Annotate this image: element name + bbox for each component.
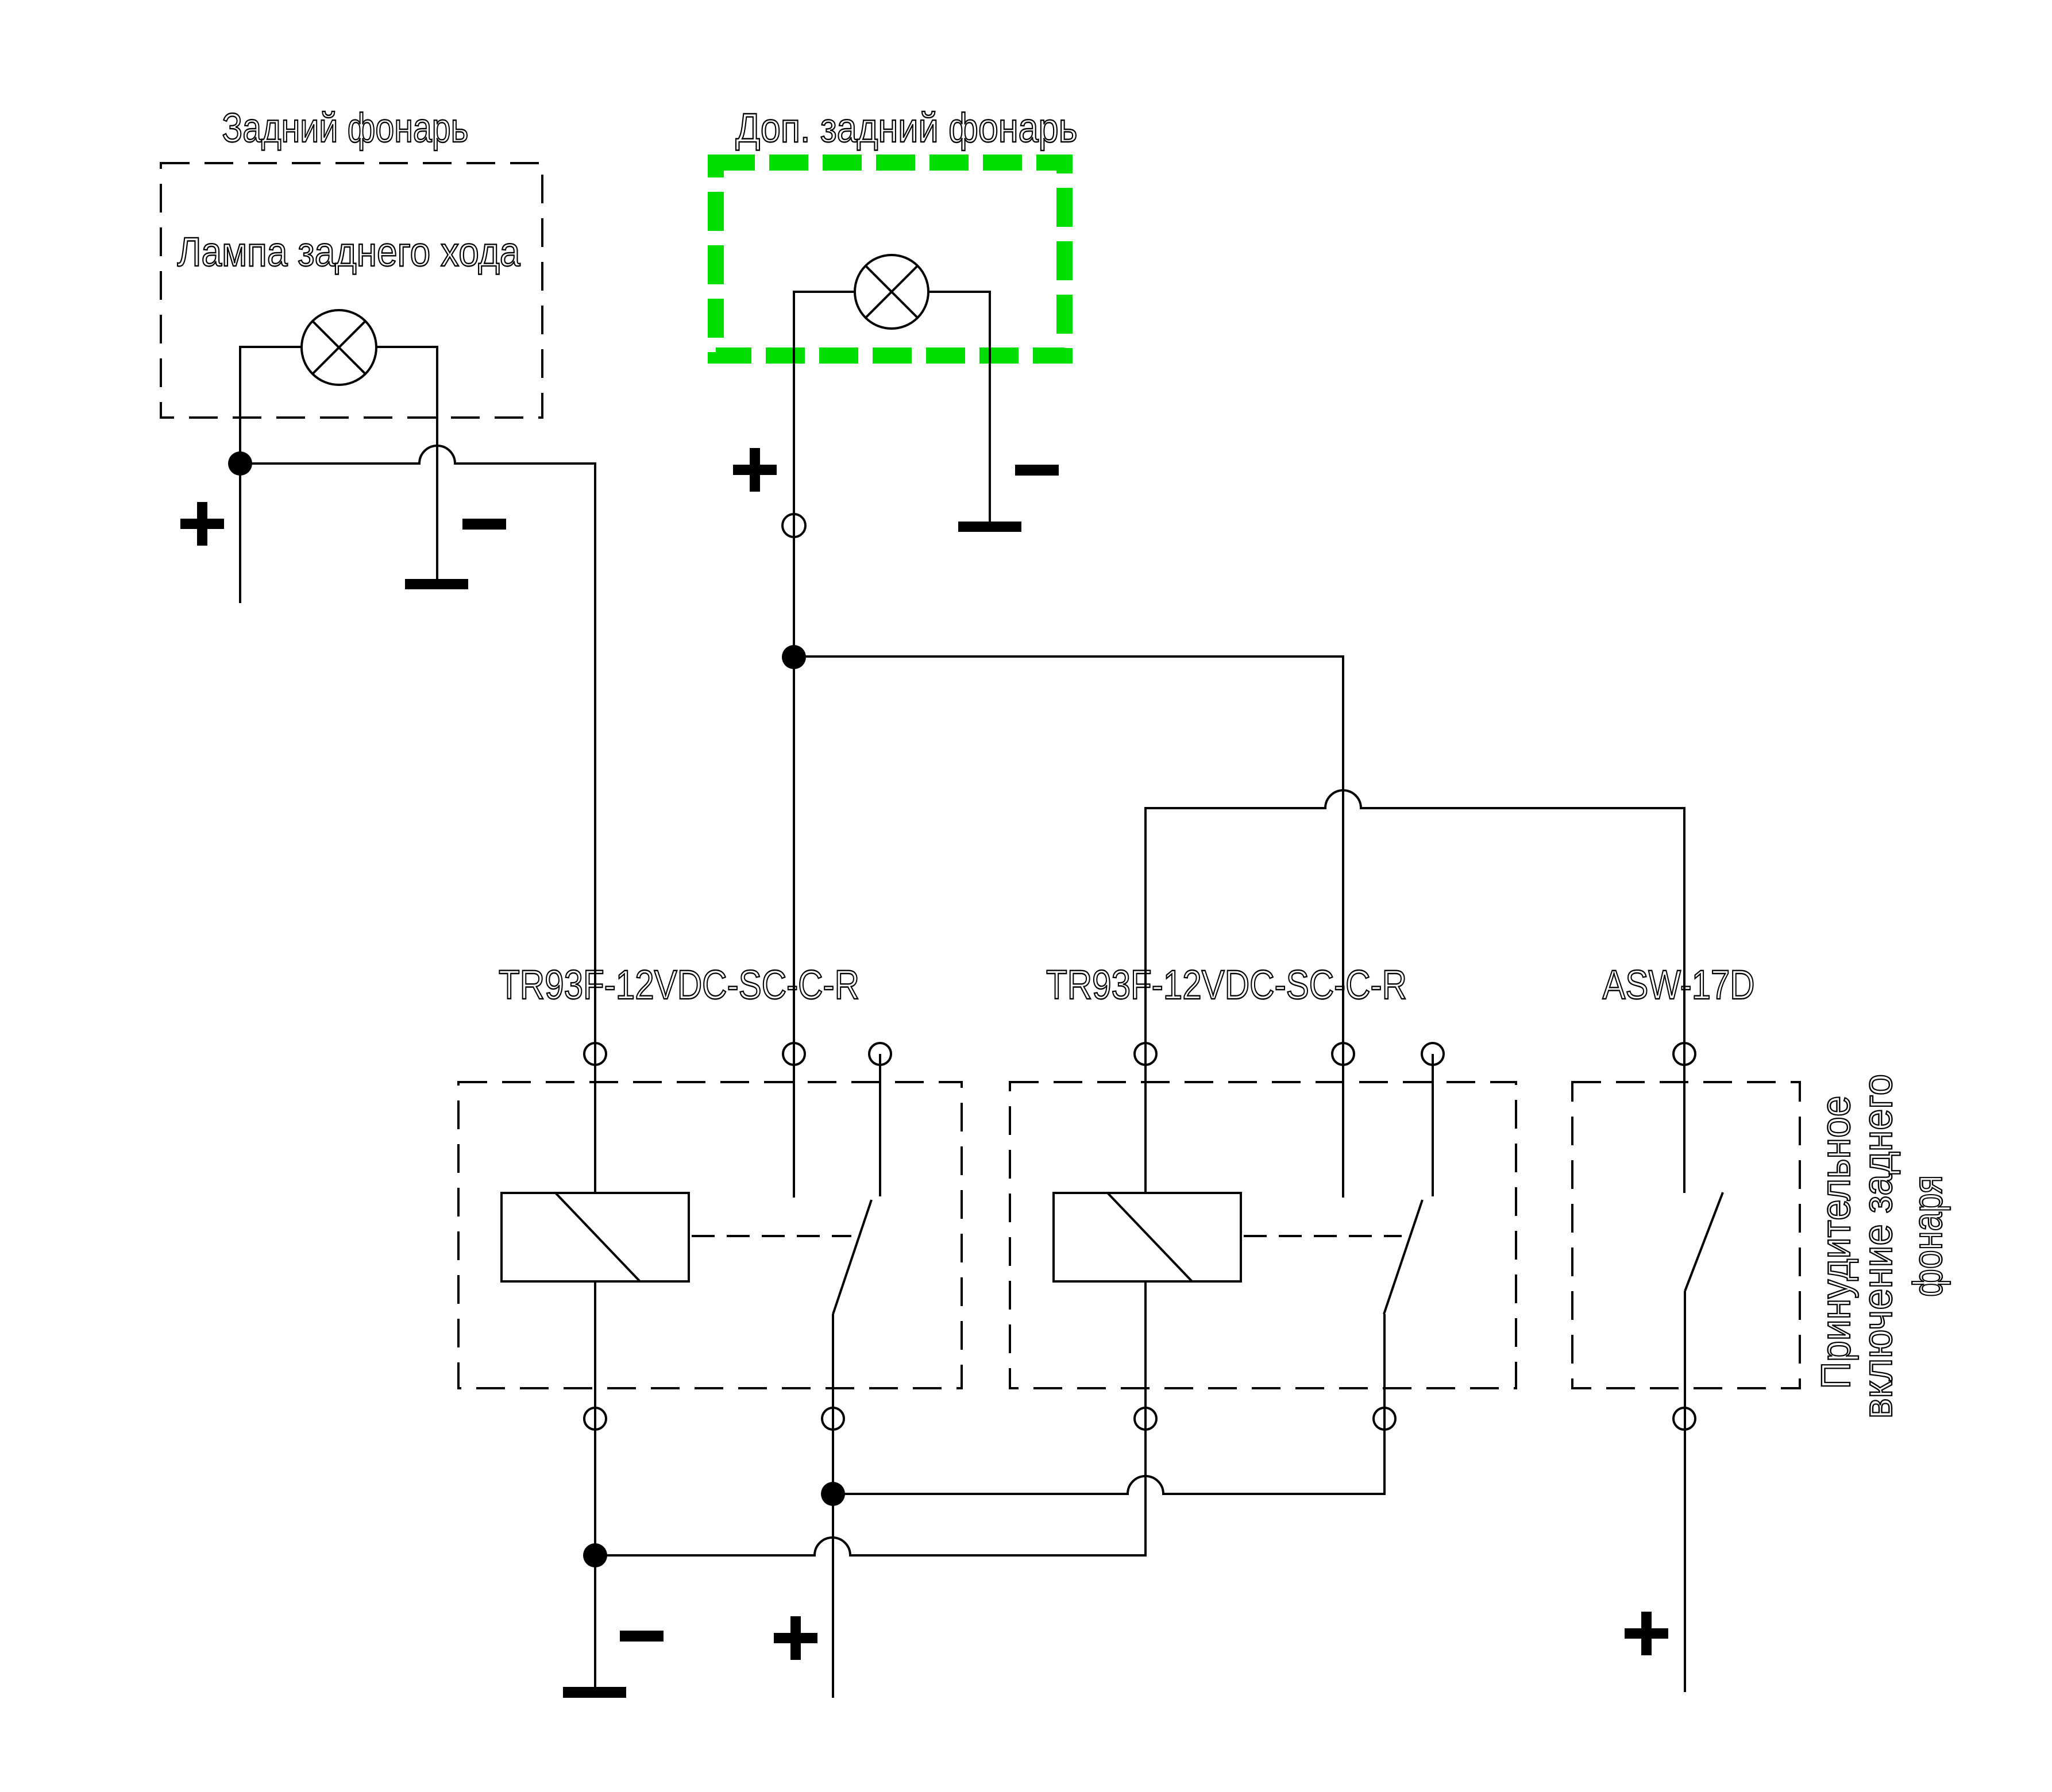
node A junction dot: [228, 451, 252, 476]
ground symbol bottom: [563, 1687, 626, 1698]
relay K2 pin 4 terminal circle: [1135, 1408, 1156, 1430]
wire: relay K1 fixed contact lead: [879, 1054, 881, 1196]
switch SA1 top terminal circle: [1673, 1043, 1695, 1065]
wire: lamp EL1 left lead down to +12V stub: [240, 347, 302, 603]
svg-text:Доп. задний фонарь: Доп. задний фонарь: [736, 106, 1078, 151]
ground symbol for EL2: [958, 522, 1021, 532]
relay K2 pin 5 terminal circle: [1374, 1408, 1395, 1430]
relay K2 pin 3 terminal circle: [1422, 1043, 1444, 1065]
switch SA1 blade: [1685, 1192, 1723, 1291]
wire: relay K1 coil bottom to ground: [594, 1281, 596, 1687]
plus supply mark for EL2: [733, 448, 777, 492]
minus mark for EL1: [462, 519, 506, 530]
wire: switch SA1 common down to +12V stub: [1684, 1291, 1686, 1692]
label: Принудительное включение заднего фонаря (rotated): [1814, 1074, 1951, 1419]
wire: K1 common to K2 common (hop over K2 coil wire): [833, 1314, 1384, 1494]
svg-text:TR93F-12VDC-SC-C-R: TR93F-12VDC-SC-C-R: [1046, 963, 1407, 1008]
relay K2 dashed enclosure: [1010, 1082, 1516, 1388]
relay K1 pin 5 terminal circle: [822, 1408, 844, 1430]
mechanical link K1 (dashed): [692, 1235, 851, 1237]
lamp EL2 (aux reverse lamp): [855, 255, 928, 329]
svg-text:Задний фонарь: Задний фонарь: [222, 106, 469, 151]
minus mark bottom: [620, 1631, 664, 1642]
relay K1 pin 3 terminal circle: [869, 1043, 891, 1065]
relay K1 pin 1 terminal circle: [584, 1043, 606, 1065]
svg-text:Лампа заднего хода: Лампа заднего хода: [178, 230, 520, 275]
relay K1 pin 4 terminal circle: [584, 1408, 606, 1430]
svg-text:TR93F-12VDC-SC-C-R: TR93F-12VDC-SC-C-R: [499, 963, 859, 1008]
relay K2 pin 1 terminal circle: [1135, 1043, 1156, 1065]
wire: node A to relay K1 coil (hop over ground wire): [240, 446, 595, 1193]
ground symbol for EL1: [405, 579, 468, 589]
relay K1 pin 2 terminal circle: [783, 1043, 805, 1065]
wire: relay K1 common down to +12V stub: [832, 1314, 834, 1698]
plus supply mark for EL1: [180, 502, 224, 546]
wire: lamp EL2 right lead down to ground: [928, 292, 990, 522]
node B junction dot on EL2 wire: [782, 645, 806, 669]
plus mark bottom: [774, 1616, 817, 1660]
svg-text:ASW-17D: ASW-17D: [1603, 963, 1755, 1008]
wire: ground bus K1 coil / K2 coil (hop over +12V wire): [595, 1281, 1145, 1555]
rear light unit box (Задний фонарь) dashed enclosure: [161, 163, 542, 418]
relay K2 pin 2 terminal circle: [1332, 1043, 1354, 1065]
minus mark for EL2: [1015, 465, 1059, 476]
relay K2 coil: [1054, 1193, 1241, 1281]
node D junction dot: [583, 1543, 607, 1567]
svg-text:Принудительное: Принудительное: [1814, 1096, 1859, 1389]
relay K1 dashed enclosure: [458, 1082, 962, 1388]
relay K1 coil: [502, 1193, 689, 1281]
lamp EL1 (reverse lamp): [302, 310, 376, 385]
lamp EL2 left lead down to relay K1 pin: [794, 292, 855, 1198]
wire: relay K2 fixed contact lead: [1432, 1054, 1434, 1196]
wire: relay K2 coil feed to switch SA1 (hop over branch wire): [1145, 790, 1684, 1193]
relay K2 switch blade: [1384, 1200, 1422, 1314]
switch SA1 bottom terminal circle: [1673, 1408, 1695, 1430]
connector terminal circle on EL2 plus wire: [782, 514, 805, 537]
plus mark for SA1: [1625, 1612, 1668, 1655]
wire: node B branch to relay K2 pin: [794, 656, 1343, 1198]
mechanical link K2 (dashed): [1244, 1235, 1402, 1237]
svg-text:фонаря: фонаря: [1906, 1175, 1951, 1297]
wire: lamp EL1 right lead down to ground: [376, 347, 437, 579]
switch SA1 dashed enclosure: [1572, 1082, 1800, 1388]
svg-text:включение заднего: включение заднего: [1856, 1074, 1901, 1419]
relay K1 switch blade: [833, 1200, 871, 1314]
aux rear light box (Доп. задний фонарь) green dashed enclosure: [716, 163, 1064, 356]
node C junction dot: [821, 1482, 845, 1506]
